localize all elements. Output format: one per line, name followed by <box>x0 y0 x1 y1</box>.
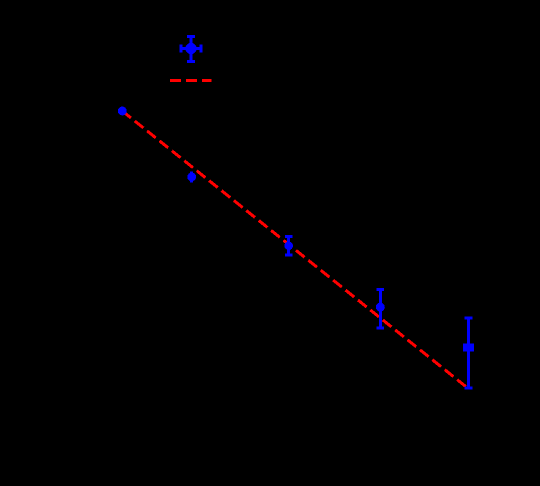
data point 3 marker <box>284 242 293 251</box>
data point 2 errorbar <box>190 171 193 182</box>
legend data-marker symbol (blue errorbar sample) <box>181 37 201 62</box>
data point 3 errorbar <box>285 236 293 255</box>
legend fit-line sample (red dashed) <box>170 79 212 82</box>
fit line (red dashed) <box>122 111 467 388</box>
data point 5 errorbar <box>465 318 473 388</box>
legend marker dot <box>185 43 196 54</box>
data point 4 errorbar <box>377 289 385 328</box>
data point 5 marker <box>463 344 474 352</box>
data point 2 marker <box>187 173 196 182</box>
data point 4 marker <box>376 303 385 312</box>
data point 1 errorbar <box>121 107 124 115</box>
data point 1 marker <box>118 107 127 116</box>
